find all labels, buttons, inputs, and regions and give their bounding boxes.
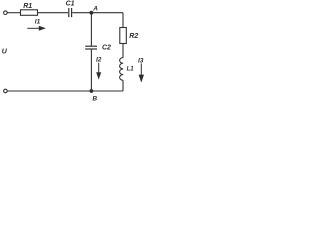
svg-text:B: B xyxy=(92,95,97,102)
capacitor C2 xyxy=(85,46,97,49)
wire (C2 down to node B) xyxy=(90,49,92,91)
terminal (input, top-left) xyxy=(4,11,8,15)
wire (terminal to R1) xyxy=(7,12,20,14)
svg-text:L1: L1 xyxy=(127,67,135,73)
resistor R2 xyxy=(120,28,127,44)
terminal (input, bottom-left) xyxy=(4,89,8,93)
svg-text:R1: R1 xyxy=(23,3,32,10)
svg-text:I3: I3 xyxy=(138,58,144,65)
node B (junction dot) xyxy=(90,89,94,93)
current arrow I1 xyxy=(27,26,46,31)
svg-text:R2: R2 xyxy=(129,33,138,40)
svg-text:I2: I2 xyxy=(96,57,102,64)
svg-text:C1: C1 xyxy=(66,1,75,8)
svg-text:U: U xyxy=(2,49,8,56)
wire (node A down to C2) xyxy=(90,13,92,46)
svg-text:C2: C2 xyxy=(102,44,111,51)
wire (top-right corner down to R2) xyxy=(122,13,124,28)
svg-text:A: A xyxy=(92,6,98,13)
wire (C1 to corner via node A) xyxy=(72,12,123,14)
resistor R1 xyxy=(21,10,38,16)
wire (bottom, right corner to terminal) xyxy=(7,90,123,92)
node A (junction dot) xyxy=(90,11,94,15)
wire (R1 to C1) xyxy=(38,12,69,14)
wire (L1 to bottom-right corner) xyxy=(122,80,124,91)
current arrow I3 xyxy=(139,63,144,82)
current arrow I2 xyxy=(96,63,101,80)
capacitor C1 xyxy=(69,8,72,17)
inductor L1 xyxy=(120,58,124,81)
svg-text:I1: I1 xyxy=(35,18,41,25)
wire (R2 to L1) xyxy=(122,44,124,58)
